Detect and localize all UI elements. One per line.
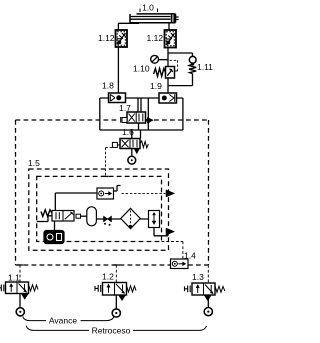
wire junction drop from 1.8/1.9 link bbox=[147, 98, 149, 130]
terminal circle 1.1 bbox=[16, 308, 24, 316]
exhaust of 1.2 bbox=[119, 296, 126, 301]
valve 1.1 bbox=[6, 282, 29, 294]
pushbutton of 1.3 bbox=[185, 286, 191, 293]
relief valve in 1.5 bbox=[97, 188, 114, 199]
spring of 1.1 bbox=[29, 285, 39, 292]
spring of 1.2 bbox=[127, 286, 137, 293]
svg-text:1.8: 1.8 bbox=[102, 81, 114, 91]
terminal circle 1.2 bbox=[112, 309, 120, 317]
dashed box 1.5 bbox=[29, 169, 169, 250]
pilot glyph left of 1.6 bbox=[112, 142, 120, 147]
pilot dashed line of 1.10 bbox=[170, 60, 178, 71]
filter diamond bbox=[121, 208, 141, 228]
svg-text:1.1: 1.1 bbox=[8, 273, 20, 283]
wire 1.6 bottom bbox=[131, 149, 133, 157]
wire 1.9 right down bbox=[177, 98, 183, 130]
pilot valve 1.7 bbox=[127, 112, 146, 123]
relief pilot elbow bbox=[114, 186, 121, 192]
spring right of 1.6 bbox=[140, 141, 148, 148]
wire 1.1 to terminal bbox=[19, 294, 21, 308]
wires 1.7 top ports bbox=[138, 98, 141, 112]
svg-text:1.9: 1.9 bbox=[150, 81, 162, 91]
main supply wire in 1.5 bbox=[96, 218, 148, 220]
output arrow upper of 1.5 bbox=[166, 190, 175, 197]
flow control valve 1.12 left bbox=[116, 30, 128, 47]
sequence valve 1.10 bbox=[166, 67, 175, 79]
spring element 1.11 bbox=[189, 56, 196, 73]
wire 1.3 to terminal bbox=[207, 295, 209, 308]
exhaust and pilot arrow right of 1.7 bbox=[146, 119, 151, 124]
svg-text:1.12: 1.12 bbox=[147, 33, 164, 43]
wire 1.12R down main line bbox=[167, 48, 169, 94]
valve 1.3 bbox=[192, 283, 215, 295]
wire 1.7 bottom port bbox=[138, 123, 140, 130]
wire cylinder right port to 1.12R bbox=[168, 23, 170, 30]
svg-text:1.12: 1.12 bbox=[98, 33, 115, 43]
elbow wire unloader left to box edge bbox=[37, 216, 52, 222]
wire compressor to unloader valve bbox=[54, 221, 56, 231]
junction tick inner box top bbox=[103, 175, 109, 177]
dryer unit bbox=[149, 211, 160, 228]
unloader valve in 1.5 bbox=[52, 211, 74, 222]
relief pilot dashed to output arrow bbox=[122, 192, 166, 194]
terminal circle 1.3 bbox=[204, 308, 212, 316]
svg-text:Retroceso: Retroceso bbox=[92, 325, 131, 335]
svg-text:1.6: 1.6 bbox=[122, 127, 134, 137]
Retroceso dimension line bbox=[26, 326, 206, 331]
svg-text:1.0: 1.0 bbox=[142, 3, 154, 13]
pushbutton of 1.2 bbox=[95, 285, 101, 292]
exhaust of 1.1 bbox=[22, 294, 29, 299]
cylinder 1.0 bbox=[130, 14, 179, 23]
check valve 1.4 bbox=[171, 259, 189, 269]
pilot glyph left of 1.7 bbox=[121, 117, 127, 123]
svg-text:1.5: 1.5 bbox=[28, 158, 40, 168]
exhaust triangle of 1.6 bbox=[134, 149, 139, 154]
wires 1.6 top ports bbox=[132, 130, 141, 139]
valve 1.2 bbox=[103, 283, 127, 296]
exhaust of 1.3 bbox=[205, 296, 212, 301]
spring left of unloader bbox=[41, 210, 52, 217]
shuttle valve 1.9 bbox=[159, 93, 177, 103]
pressure gauge bbox=[151, 55, 159, 63]
pushbutton of 1.1 bbox=[0, 285, 4, 292]
wire cylinder left port to 1.12L bbox=[118, 23, 139, 30]
glyph right of unloader bbox=[76, 214, 81, 218]
port circle below 1.6 bbox=[128, 156, 136, 164]
wire to spring element 1.11 bbox=[168, 53, 193, 56]
wire 1.2 to terminal bbox=[115, 295, 117, 309]
inner dashed supply box bbox=[37, 176, 162, 241]
wire 1.12L to shuttle 1.8 bbox=[117, 47, 119, 93]
svg-text:1.10: 1.10 bbox=[133, 64, 150, 74]
air receiver tank bbox=[87, 207, 97, 226]
wire 1.8 to 1.9 bbox=[126, 97, 160, 99]
spring of 1.10 bbox=[154, 69, 166, 77]
pressure gauge wire bbox=[159, 59, 168, 61]
junction ticks on bottom edge bbox=[17, 264, 120, 266]
svg-text:1.11: 1.11 bbox=[197, 62, 213, 72]
wire glyph to receiver bbox=[81, 215, 87, 217]
spring of 1.3 bbox=[215, 286, 225, 292]
bus wire lower bbox=[100, 129, 183, 131]
output arrow lower of 1.5 bbox=[166, 228, 175, 235]
outer dashed system box bbox=[16, 120, 209, 265]
Avance dimension line bbox=[23, 317, 114, 321]
compressor unit bbox=[44, 231, 64, 244]
flow control valve 1.12 right bbox=[165, 30, 177, 48]
wire dryer to lower output bbox=[154, 228, 168, 236]
dashed link inner box to 1.4 bbox=[162, 242, 183, 260]
pilot valve 1.6 bbox=[120, 139, 140, 149]
wire 1.8 left down bbox=[100, 98, 109, 130]
wire 1.11 bottom elbow bbox=[168, 74, 193, 86]
svg-text:1.3: 1.3 bbox=[192, 272, 204, 282]
pilot dashed line to 1.6 bbox=[106, 148, 113, 177]
wire unloader top to relief bbox=[55, 193, 97, 211]
shuttle valve 1.8 bbox=[109, 93, 126, 103]
condensate drain bbox=[104, 216, 112, 226]
pilot risers from bottom edge bbox=[20, 265, 208, 283]
svg-text:1.2: 1.2 bbox=[102, 272, 114, 282]
svg-text:Avance: Avance bbox=[49, 316, 77, 326]
